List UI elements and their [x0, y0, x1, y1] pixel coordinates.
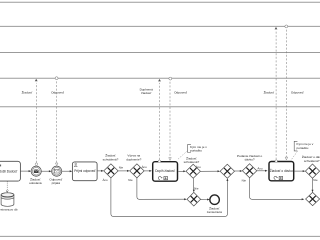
wire E2 to task B [62, 170, 73, 172]
wire G3 to G4 [235, 170, 243, 172]
pool 1 top border [0, 1, 320, 3]
svg-text:Nie: Nie [119, 166, 124, 170]
wire G1 to G2 label Nie [118, 166, 130, 172]
pool 1 bottom border [0, 25, 320, 27]
wire G4 to task D label Ano [257, 166, 268, 172]
svg-text:Áno: Áno [196, 165, 202, 169]
svg-text:Nie: Nie [128, 178, 133, 182]
association A2 to task D corner [292, 151, 298, 159]
gateway Gs2 Ziadost schvalena? (second) [184, 156, 201, 179]
message flow M5 from task D up to pool 1 [264, 27, 278, 162]
wire task A to event E1 [21, 170, 32, 172]
wire Gs2 to G3 label Ano [196, 165, 220, 172]
svg-text:poriadku: poriadku [190, 148, 202, 152]
svg-text:žiadosť: žiadosť [141, 91, 152, 95]
wire task D to G5 [294, 170, 305, 172]
wire G4 to G6 label Nie [242, 178, 305, 200]
association A1 to task C corner [178, 151, 188, 160]
wire G2 to G7 label Nie [128, 178, 187, 200]
wire G1 loop Ano down right up into G3 [103, 178, 229, 217]
task C Dopln ziadost (call activity) [153, 162, 178, 182]
svg-text:Žiadosť: Žiadosť [264, 90, 275, 95]
wire E1 to E2 [41, 170, 51, 172]
svg-text:Nie: Nie [194, 187, 199, 191]
svg-text:dávku?: dávku? [245, 157, 255, 161]
svg-text:Odpoveď: Odpoveď [291, 91, 304, 95]
task A Odosli ziadost (clipped at left edge) [0, 161, 20, 181]
svg-text:schválená?: schválená? [304, 159, 320, 163]
svg-text:prijatá: prijatá [52, 181, 61, 185]
svg-text:Áno: Áno [142, 165, 148, 169]
svg-text:schválená?: schválená? [184, 160, 200, 164]
task B Prijmi odpoved [72, 162, 97, 181]
message flow M6 from pool 1 down to task D [285, 25, 304, 160]
svg-text:Žiadosť o dávku: Žiadosť o dávku [270, 168, 293, 173]
svg-text:Žiadosť: Žiadosť [22, 90, 33, 95]
gateway G1 Ziadost schvalena? [103, 153, 119, 178]
svg-text:Áno: Áno [103, 178, 109, 182]
pool 2 bottom border [0, 77, 320, 79]
wire Gs2 to G7 label Nie [193, 178, 199, 192]
wire G7 to end event [201, 199, 210, 201]
wire G2 to task C label Ano [142, 165, 152, 172]
message flow M1 from E1 up to pool 2 [22, 79, 38, 166]
task D Ziadost o davku (call activity) [269, 162, 294, 181]
gateway G4 Podanie ziadosti o davku? [237, 154, 263, 178]
gateway G3 merge [220, 164, 234, 178]
annotation A1 Kym nie je v poriadku [188, 144, 208, 152]
svg-text:Odpoveď: Odpoveď [51, 91, 64, 95]
svg-text:Doplň žiadosť: Doplň žiadosť [155, 169, 175, 173]
gateway G2 Vyzva na doplnenie? [126, 154, 144, 178]
end event Ziadost zamietnuta [207, 195, 222, 214]
gateway G6 merge bottom right [306, 192, 320, 205]
message flow M2 from pool 2 down to E2 [51, 77, 64, 166]
message flow M3 from task C up to pool 2 [140, 79, 161, 163]
annotation A2 Kym nie je v poriadku [294, 141, 314, 151]
pool 2 top border [0, 52, 320, 54]
svg-text:doplnenie?: doplnenie? [126, 157, 141, 161]
wire G5 to G6 label Nie [312, 178, 318, 193]
svg-text:poriadku: poriadku [297, 146, 309, 150]
svg-text:schválená?: schválená? [103, 157, 119, 161]
svg-text:zamestnancov db: zamestnancov db [0, 208, 18, 212]
svg-text:Áno: Áno [257, 166, 263, 170]
svg-text:zamietnutá: zamietnutá [207, 210, 222, 214]
svg-text:Nie: Nie [313, 178, 318, 182]
main pool top border [0, 106, 320, 108]
message throw event E1 Ziadost odoslana [29, 166, 42, 185]
data association task A to data store [6, 181, 8, 192]
svg-text:odoslaná: odoslaná [29, 181, 42, 185]
gateway G5 Ziadost o davku schvalena? [302, 154, 320, 178]
main pool bottom border [0, 235, 320, 237]
wire task B to gateway G1 [97, 170, 104, 172]
svg-text:Prijmi odpoveď: Prijmi odpoveď [74, 169, 95, 173]
svg-text:Odošli žiadosť: Odošli žiadosť [0, 169, 18, 173]
wire task C to gateway Gs2 [178, 170, 186, 172]
message catch event E2 Odpoved prijata [49, 166, 62, 185]
svg-text:Nie: Nie [242, 178, 247, 182]
svg-text:Odpoveď: Odpoveď [174, 91, 187, 95]
data store cylinder [1, 193, 14, 207]
gateway G7 merge before end [187, 192, 201, 206]
message flow M4 from pool 2 down to task C [169, 77, 187, 160]
